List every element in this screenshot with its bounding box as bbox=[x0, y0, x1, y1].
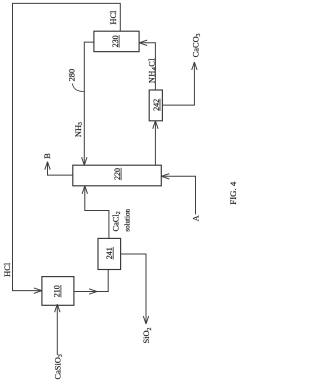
svg-text:solution: solution bbox=[123, 209, 131, 232]
box 210 bbox=[42, 277, 74, 306]
wire 210 to 241 bbox=[74, 270, 108, 292]
arrowhead into 220 left bbox=[82, 186, 87, 194]
svg-text:241: 241 bbox=[105, 247, 114, 259]
svg-text:A: A bbox=[191, 215, 200, 221]
arrowhead B bbox=[45, 162, 50, 170]
arrowhead A into 220 bottom bbox=[161, 174, 169, 179]
arrowhead CaCO3 bbox=[192, 62, 197, 70]
arrowhead into 210 left bbox=[55, 304, 60, 312]
svg-text:220: 220 bbox=[113, 168, 122, 180]
box 220 bbox=[73, 165, 162, 186]
box 242 bbox=[149, 90, 162, 121]
wire SiO2 out of 241 bbox=[121, 254, 146, 324]
box 230 bbox=[94, 31, 139, 51]
svg-text:HCl: HCl bbox=[3, 262, 12, 277]
svg-text:CaCO3: CaCO3 bbox=[191, 33, 202, 57]
svg-text:210: 210 bbox=[53, 285, 62, 297]
arrowhead SiO2 bbox=[143, 316, 148, 324]
wire NH4Cl 242 to 230 bbox=[139, 43, 155, 90]
arrowhead into 210 top bbox=[34, 288, 42, 293]
leader line 280 bbox=[72, 83, 84, 91]
svg-text:FIG. 4: FIG. 4 bbox=[228, 181, 238, 205]
svg-text:NH4Cl: NH4Cl bbox=[147, 58, 158, 83]
wire 220 to 242 bbox=[154, 121, 156, 165]
wire CaCl2 solution 241 to 220 bbox=[85, 186, 109, 239]
arrowhead mid pointing down bbox=[89, 289, 97, 294]
arrowhead into 242 left bbox=[153, 121, 158, 129]
box 241 bbox=[98, 238, 121, 269]
wire NH3 230 to 220 bbox=[84, 42, 94, 165]
wire A into 220 bottom bbox=[161, 176, 195, 214]
svg-text:HCl: HCl bbox=[109, 10, 118, 25]
wire CaCO3 out of 242 bbox=[162, 62, 194, 105]
wire HCl recycle loop 230 to 210 bbox=[13, 3, 121, 290]
arrowhead into 220 right bbox=[82, 157, 87, 165]
arrowhead into 230 bottom bbox=[139, 40, 147, 45]
svg-text:280: 280 bbox=[67, 69, 76, 82]
svg-text:242: 242 bbox=[152, 99, 161, 111]
wire CaSiO3 into 210 bbox=[56, 306, 58, 356]
svg-text:230: 230 bbox=[111, 35, 120, 47]
wire B out of 220 top bbox=[48, 162, 73, 175]
svg-text:B: B bbox=[43, 153, 52, 159]
